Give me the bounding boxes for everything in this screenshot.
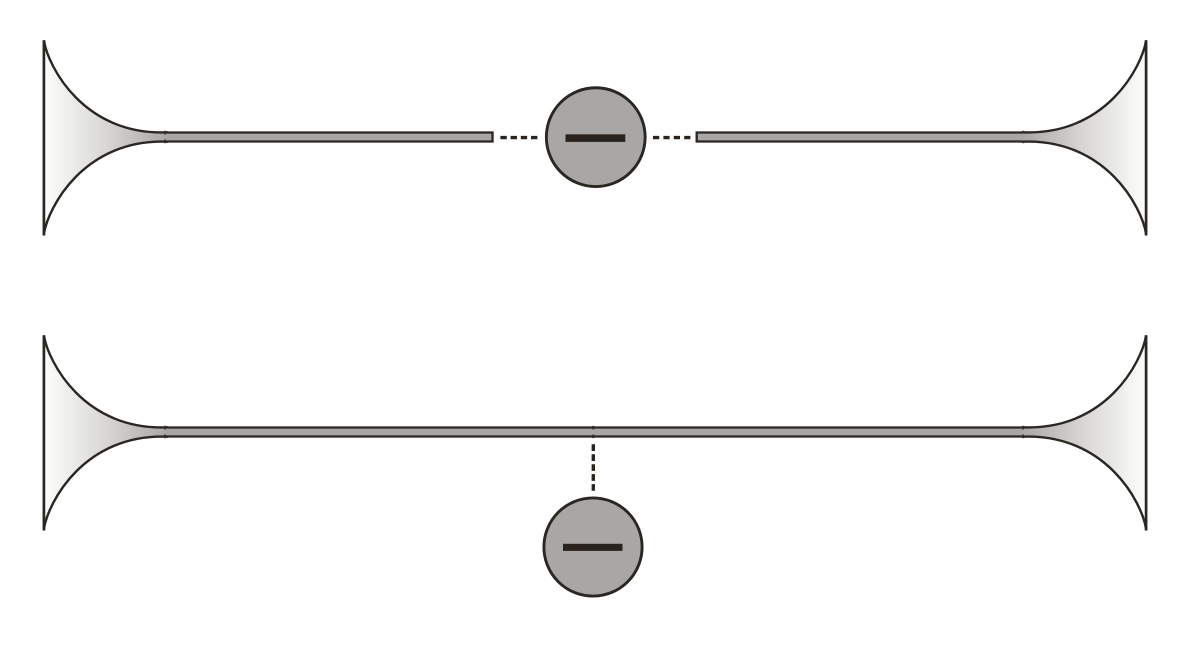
series device bar, top diagram — [566, 134, 626, 142]
left taper horn, top diagram — [44, 40, 168, 235]
left dashed link, top diagram — [500, 136, 537, 139]
vertical dashed link, bottom diagram — [592, 444, 595, 491]
left taper horn, bottom diagram — [44, 335, 168, 530]
throat seam tick, top-right — [1022, 131, 1024, 135]
continuous transmission line, bottom diagram — [165, 427, 1026, 438]
series device circle, top diagram — [546, 88, 645, 187]
right transmission-line segment, top diagram — [696, 132, 1026, 143]
throat seam tick, bottom-left — [164, 426, 166, 430]
shunt device circle, bottom diagram — [544, 498, 642, 596]
right dashed link, top diagram — [653, 136, 691, 139]
center seam on line, bottom diagram — [592, 426, 594, 430]
shunt device bar, bottom diagram — [563, 544, 623, 551]
throat seam tick, bottom-right — [1022, 426, 1024, 430]
right taper horn, bottom diagram — [1022, 335, 1146, 530]
right taper horn, top diagram — [1022, 40, 1146, 235]
throat seam tick, top-left — [164, 131, 166, 135]
left transmission-line segment, top diagram — [165, 132, 494, 143]
